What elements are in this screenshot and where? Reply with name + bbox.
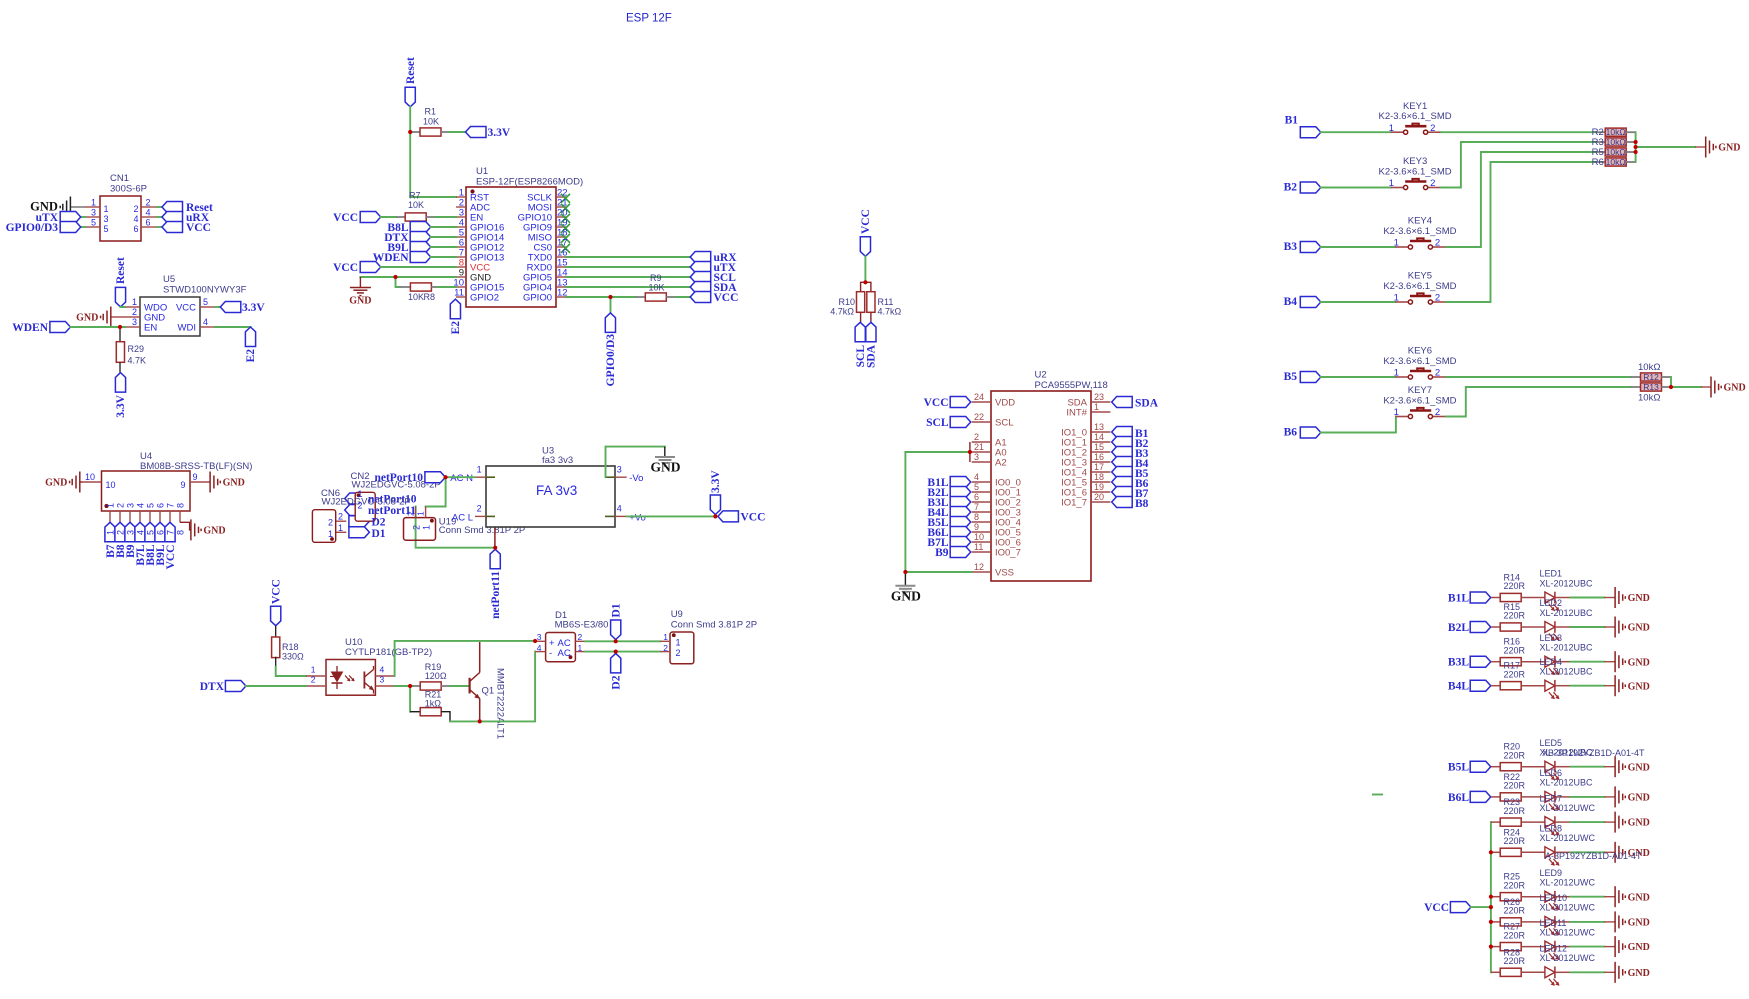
svg-text:GND: GND [1628, 681, 1650, 692]
svg-text:R17: R17 [1504, 661, 1521, 671]
svg-text:2: 2 [412, 525, 422, 530]
svg-text:B6: B6 [1284, 427, 1298, 439]
svg-text:3: 3 [974, 452, 979, 462]
svg-text:R26: R26 [1504, 897, 1521, 907]
svg-text:R20: R20 [1504, 742, 1521, 752]
svg-text:R9: R9 [650, 273, 662, 283]
svg-text:LED7: LED7 [1540, 793, 1563, 803]
svg-text:220R: 220R [1504, 750, 1526, 760]
svg-text:B8: B8 [1135, 498, 1149, 510]
svg-text:8: 8 [176, 503, 186, 508]
svg-text:Conn Smd 3.81P 2P: Conn Smd 3.81P 2P [671, 620, 757, 631]
svg-text:WJ2EDGVC-5.08-2P: WJ2EDGVC-5.08-2P [322, 496, 411, 507]
svg-text:XL-2012UBC: XL-2012UBC [1540, 643, 1594, 653]
svg-text:220R: 220R [1504, 806, 1526, 816]
svg-text:INT#: INT# [1066, 408, 1087, 419]
svg-text:R27: R27 [1504, 922, 1521, 932]
svg-text:U9: U9 [671, 609, 683, 620]
svg-text:2: 2 [1435, 368, 1440, 379]
svg-text:R6: R6 [1592, 157, 1604, 168]
svg-text:EN: EN [144, 323, 157, 334]
svg-text:3: 3 [91, 207, 96, 217]
svg-text:6: 6 [156, 503, 166, 508]
svg-text:MB6S-E3/80: MB6S-E3/80 [555, 620, 609, 631]
svg-text:24: 24 [974, 392, 984, 402]
svg-text:10kΩ: 10kΩ [1606, 147, 1626, 157]
svg-text:4: 4 [537, 643, 542, 653]
svg-text:LED12: LED12 [1540, 944, 1568, 954]
svg-text:D1: D1 [610, 603, 622, 617]
svg-text:2: 2 [146, 197, 151, 207]
svg-text:B3L: B3L [1448, 657, 1469, 669]
svg-text:CN1: CN1 [110, 173, 129, 184]
svg-text:6: 6 [156, 530, 166, 535]
svg-text:B2: B2 [1284, 182, 1298, 194]
svg-text:GND: GND [1718, 143, 1740, 154]
svg-text:5: 5 [104, 224, 109, 234]
svg-text:D1: D1 [372, 528, 386, 540]
svg-text:4.7kΩ: 4.7kΩ [830, 307, 854, 317]
svg-text:E2: E2 [245, 349, 257, 363]
svg-text:10kΩ: 10kΩ [1638, 362, 1660, 373]
svg-text:1: 1 [1389, 178, 1394, 189]
svg-text:1: 1 [338, 523, 343, 533]
svg-text:-: - [549, 648, 552, 659]
svg-text:VCC: VCC [741, 512, 766, 524]
svg-text:+: + [549, 638, 555, 649]
svg-text:GND: GND [1628, 968, 1650, 979]
svg-text:VCC: VCC [176, 303, 196, 314]
svg-text:DTX: DTX [200, 681, 225, 693]
svg-text:1: 1 [477, 464, 482, 474]
svg-text:2: 2 [1435, 238, 1440, 249]
svg-text:GND: GND [1628, 623, 1650, 634]
svg-text:11: 11 [974, 542, 983, 552]
svg-text:4: 4 [203, 317, 208, 327]
svg-text:9: 9 [180, 480, 185, 490]
svg-text:GPIO0/D3: GPIO0/D3 [6, 222, 59, 234]
svg-text:220R: 220R [1504, 781, 1526, 791]
svg-text:K2-3.6×6.1_SMD: K2-3.6×6.1_SMD [1383, 356, 1456, 367]
svg-text:3.3V: 3.3V [710, 470, 722, 493]
svg-text:XL-2012UBC: XL-2012UBC [1540, 667, 1594, 677]
svg-text:WDEN: WDEN [373, 252, 409, 264]
svg-text:4: 4 [380, 664, 385, 674]
svg-text:1: 1 [328, 529, 333, 539]
svg-text:B6L: B6L [1448, 792, 1469, 804]
svg-text:10: 10 [974, 532, 984, 542]
svg-text:1: 1 [1394, 368, 1399, 379]
svg-text:B2L: B2L [1448, 622, 1469, 634]
svg-text:B3: B3 [1284, 241, 1298, 253]
svg-text:2: 2 [1435, 407, 1440, 418]
svg-text:LED5: LED5 [1540, 738, 1563, 748]
svg-text:GND: GND [1628, 762, 1650, 773]
svg-text:CYTLP181(GB-TP2): CYTLP181(GB-TP2) [345, 647, 432, 658]
svg-text:14: 14 [1094, 432, 1104, 442]
svg-text:VCC: VCC [165, 545, 177, 570]
svg-text:XL-2012UBC: XL-2012UBC [1540, 608, 1594, 618]
svg-text:LED11: LED11 [1540, 918, 1567, 928]
svg-text:STWD100NYWY3F: STWD100NYWY3F [163, 285, 247, 296]
svg-text:XL-2012UWC: XL-2012UWC [1540, 953, 1596, 963]
svg-text:PCA9555PW,118: PCA9555PW,118 [1035, 380, 1108, 391]
svg-text:16: 16 [1094, 452, 1104, 462]
svg-text:netPort10: netPort10 [374, 472, 423, 484]
svg-text:5: 5 [91, 217, 96, 227]
svg-text:SCL: SCL [926, 417, 949, 429]
svg-text:LED1: LED1 [1540, 569, 1563, 579]
svg-text:ESP 12F: ESP 12F [626, 13, 672, 25]
svg-text:220R: 220R [1504, 581, 1526, 591]
svg-text:AC: AC [558, 648, 571, 659]
svg-text:B4: B4 [1284, 296, 1298, 308]
svg-text:1: 1 [422, 525, 432, 530]
svg-text:2: 2 [1430, 178, 1435, 189]
svg-text:2: 2 [477, 504, 482, 514]
svg-text:B9: B9 [935, 547, 949, 559]
svg-text:20: 20 [1094, 492, 1104, 502]
svg-text:GND: GND [76, 313, 98, 324]
svg-text:XL-2012UBC: XL-2012UBC [1540, 778, 1594, 788]
svg-text:9: 9 [193, 472, 198, 482]
svg-text:GND: GND [891, 588, 921, 603]
svg-text:R24: R24 [1504, 827, 1521, 837]
svg-text:2: 2 [1430, 123, 1435, 134]
svg-text:1: 1 [663, 632, 668, 642]
svg-text:R29: R29 [128, 344, 145, 354]
svg-text:7: 7 [974, 502, 979, 512]
svg-text:Reset: Reset [115, 257, 127, 284]
svg-text:1: 1 [132, 297, 137, 307]
svg-text:4.7kΩ: 4.7kΩ [878, 307, 902, 317]
svg-text:7: 7 [166, 503, 176, 508]
svg-text:R12: R12 [1643, 372, 1659, 382]
svg-text:VCC: VCC [270, 579, 282, 604]
svg-text:R22: R22 [1504, 772, 1521, 782]
svg-text:GPIO0: GPIO0 [523, 293, 552, 304]
svg-text:SDA: SDA [866, 344, 878, 368]
svg-text:3: 3 [380, 674, 385, 684]
svg-text:10K: 10K [408, 200, 424, 210]
svg-text:GND: GND [1628, 918, 1650, 929]
svg-text:R7: R7 [409, 191, 421, 201]
svg-text:R25: R25 [1504, 872, 1521, 882]
svg-text:R1: R1 [425, 107, 437, 117]
svg-text:12: 12 [974, 562, 984, 572]
svg-text:15: 15 [1094, 442, 1104, 452]
svg-text:4: 4 [146, 207, 151, 217]
svg-text:2: 2 [406, 511, 416, 516]
svg-text:1: 1 [91, 197, 96, 207]
svg-text:VDD: VDD [995, 398, 1015, 409]
svg-text:GPIO0/D3: GPIO0/D3 [605, 334, 617, 387]
svg-text:1: 1 [578, 643, 583, 653]
svg-text:GND: GND [1628, 793, 1650, 804]
svg-text:220R: 220R [1504, 906, 1526, 916]
svg-text:LED3: LED3 [1540, 633, 1563, 643]
svg-text:ESP-12F(ESP8266MOD): ESP-12F(ESP8266MOD) [476, 177, 583, 188]
svg-text:2: 2 [578, 632, 583, 642]
svg-text:330Ω: 330Ω [282, 651, 304, 661]
svg-text:AC N: AC N [450, 473, 473, 484]
svg-text:B1: B1 [1285, 115, 1299, 127]
svg-text:3: 3 [537, 632, 542, 642]
svg-text:K2-3.6×6.1_SMD: K2-3.6×6.1_SMD [1383, 281, 1456, 292]
svg-text:B1L: B1L [1448, 593, 1469, 605]
svg-text:R14: R14 [1504, 573, 1521, 583]
svg-text:4: 4 [133, 214, 138, 224]
svg-text:A-3P192YZB1D-A01-4T: A-3P192YZB1D-A01-4T [1545, 851, 1642, 861]
svg-text:U2: U2 [1035, 370, 1047, 381]
svg-text:2: 2 [132, 307, 137, 317]
svg-text:GND: GND [1628, 942, 1650, 953]
svg-text:LED2: LED2 [1540, 598, 1563, 608]
svg-text:8: 8 [176, 530, 186, 535]
svg-text:1: 1 [1394, 293, 1399, 304]
svg-text:2: 2 [328, 518, 333, 528]
svg-text:A2: A2 [995, 458, 1007, 469]
svg-text:22: 22 [974, 412, 984, 422]
svg-text:4: 4 [136, 503, 146, 508]
svg-text:23: 23 [1094, 392, 1104, 402]
svg-text:VCC: VCC [333, 212, 358, 224]
svg-text:R11: R11 [878, 297, 894, 307]
svg-text:2: 2 [663, 643, 668, 653]
svg-text:GND: GND [1628, 657, 1650, 668]
svg-text:LED9: LED9 [1540, 868, 1563, 878]
svg-text:XL-2012UWC: XL-2012UWC [1540, 878, 1596, 888]
svg-text:netPort11: netPort11 [490, 571, 502, 619]
svg-text:GND: GND [1628, 593, 1650, 604]
svg-text:220R: 220R [1504, 930, 1526, 940]
svg-text:10K: 10K [649, 283, 665, 293]
svg-text:18: 18 [1094, 472, 1104, 482]
svg-text:1: 1 [104, 204, 109, 214]
svg-text:220R: 220R [1504, 880, 1526, 890]
svg-text:2: 2 [116, 503, 126, 508]
svg-text:10K: 10K [423, 117, 439, 127]
svg-text:1: 1 [106, 530, 116, 535]
svg-text:SCL: SCL [995, 418, 1013, 429]
svg-text:3: 3 [104, 214, 109, 224]
svg-text:10kΩ: 10kΩ [1606, 157, 1626, 167]
svg-text:R8: R8 [424, 292, 436, 302]
svg-text:AC: AC [558, 638, 571, 649]
svg-text:2: 2 [338, 512, 343, 522]
svg-text:220R: 220R [1504, 611, 1526, 621]
svg-text:1: 1 [416, 511, 426, 516]
svg-text:4: 4 [974, 472, 979, 482]
svg-text:XL-2012UWC: XL-2012UWC [1540, 803, 1596, 813]
svg-text:VCC: VCC [860, 209, 872, 234]
svg-text:4: 4 [617, 504, 622, 514]
svg-text:4.7K: 4.7K [128, 356, 147, 366]
svg-text:GND: GND [349, 296, 371, 307]
svg-text:2: 2 [116, 530, 126, 535]
svg-text:B4L: B4L [1448, 681, 1469, 693]
svg-text:1: 1 [1389, 123, 1394, 134]
svg-text:D2: D2 [610, 675, 622, 689]
svg-text:GND: GND [1628, 818, 1650, 829]
svg-text:VCC: VCC [1424, 902, 1449, 914]
svg-text:LED8: LED8 [1540, 824, 1563, 834]
svg-text:220R: 220R [1504, 645, 1526, 655]
svg-text:1: 1 [311, 664, 316, 674]
svg-text:19: 19 [1094, 482, 1104, 492]
svg-text:VCC: VCC [924, 397, 949, 409]
svg-text:10K: 10K [408, 292, 424, 302]
svg-text:AC L: AC L [452, 512, 473, 523]
svg-text:2: 2 [676, 648, 681, 658]
svg-text:-Vo: -Vo [629, 473, 643, 484]
svg-text:GND: GND [1724, 383, 1746, 394]
svg-text:R13: R13 [1643, 382, 1659, 392]
svg-text:VSS: VSS [995, 568, 1014, 579]
svg-text:5: 5 [203, 297, 208, 307]
svg-text:120Ω: 120Ω [425, 671, 447, 681]
svg-text:17: 17 [1094, 462, 1104, 472]
svg-text:U1: U1 [476, 166, 488, 177]
svg-text:8: 8 [974, 512, 979, 522]
svg-text:VCC: VCC [714, 292, 739, 304]
svg-text:1: 1 [1394, 407, 1399, 418]
svg-text:K2-3.6×6.1_SMD: K2-3.6×6.1_SMD [1383, 226, 1456, 237]
svg-text:5: 5 [146, 530, 156, 535]
svg-text:WDEN: WDEN [12, 322, 48, 334]
svg-text:XL-2012UBC: XL-2012UBC [1540, 578, 1594, 588]
svg-text:IO1_7: IO1_7 [1061, 498, 1087, 509]
svg-text:1: 1 [1394, 238, 1399, 249]
svg-text:2: 2 [133, 204, 138, 214]
svg-text:3.3V: 3.3V [115, 394, 127, 417]
svg-text:3: 3 [126, 530, 136, 535]
svg-text:WDI: WDI [178, 323, 196, 334]
svg-text:VCC: VCC [333, 262, 358, 274]
svg-text:K2-3.6×6.1_SMD: K2-3.6×6.1_SMD [1379, 111, 1452, 122]
svg-text:fa3 3v3: fa3 3v3 [542, 455, 573, 466]
svg-text:10kΩ: 10kΩ [1638, 393, 1660, 404]
svg-text:3.3V: 3.3V [488, 127, 511, 139]
svg-text:11: 11 [454, 288, 464, 299]
svg-text:6: 6 [146, 217, 151, 227]
svg-text:Q1: Q1 [482, 686, 495, 697]
svg-text:LED4: LED4 [1540, 657, 1563, 667]
svg-text:BM08B-SRSS-TB(LF)(SN): BM08B-SRSS-TB(LF)(SN) [140, 461, 252, 472]
svg-text:XL-2012UWC: XL-2012UWC [1540, 833, 1596, 843]
svg-text:LED6: LED6 [1540, 768, 1563, 778]
svg-text:+Vo: +Vo [629, 512, 646, 523]
svg-text:MMBT2222ALT1: MMBT2222ALT1 [495, 668, 506, 739]
svg-text:GND: GND [1628, 892, 1650, 903]
svg-text:GND: GND [203, 526, 225, 537]
svg-text:4: 4 [136, 530, 146, 535]
svg-text:3: 3 [617, 464, 622, 474]
svg-text:10: 10 [106, 480, 116, 490]
svg-text:XL-2012UWC: XL-2012UWC [1540, 927, 1596, 937]
svg-text:10kΩ: 10kΩ [1606, 137, 1626, 147]
svg-text:9: 9 [974, 522, 979, 532]
svg-text:Reset: Reset [405, 57, 417, 84]
svg-text:B5L: B5L [1448, 762, 1469, 774]
svg-text:220R: 220R [1504, 836, 1526, 846]
svg-text:13: 13 [1094, 422, 1104, 432]
svg-text:K2-3.6×6.1_SMD: K2-3.6×6.1_SMD [1383, 395, 1456, 406]
svg-text:VCC: VCC [186, 222, 211, 234]
svg-text:B5: B5 [1284, 371, 1298, 383]
svg-text:10: 10 [85, 472, 95, 482]
svg-text:2: 2 [1435, 293, 1440, 304]
svg-text:2: 2 [974, 432, 979, 442]
svg-text:220R: 220R [1504, 669, 1526, 679]
svg-text:5: 5 [974, 482, 979, 492]
svg-text:3.3V: 3.3V [242, 302, 265, 314]
svg-text:U5: U5 [163, 274, 175, 285]
svg-text:1kΩ: 1kΩ [425, 699, 442, 709]
svg-text:GND: GND [45, 478, 67, 489]
svg-text:1: 1 [676, 638, 681, 648]
svg-text:10kΩ: 10kΩ [1606, 127, 1626, 137]
svg-text:6: 6 [133, 224, 138, 234]
svg-text:IO0_7: IO0_7 [995, 548, 1021, 559]
svg-text:LED10: LED10 [1540, 893, 1568, 903]
svg-text:XL-2012UWC: XL-2012UWC [1540, 903, 1596, 913]
svg-text:XB-3P192YZB1D-A01-4T: XB-3P192YZB1D-A01-4T [1542, 748, 1645, 758]
svg-text:3: 3 [126, 503, 136, 508]
svg-text:R16: R16 [1504, 637, 1521, 647]
svg-text:5: 5 [146, 503, 156, 508]
svg-text:R23: R23 [1504, 797, 1521, 807]
svg-text:7: 7 [166, 530, 176, 535]
svg-text:300S-6P: 300S-6P [110, 184, 147, 195]
svg-text:FA 3v3: FA 3v3 [536, 483, 577, 498]
svg-text:2: 2 [311, 674, 316, 684]
svg-text:3: 3 [132, 317, 137, 327]
svg-text:GPIO2: GPIO2 [470, 293, 499, 304]
svg-text:1: 1 [106, 503, 116, 508]
svg-text:SDA: SDA [1135, 398, 1159, 410]
svg-text:21: 21 [974, 442, 984, 452]
svg-text:R28: R28 [1504, 947, 1521, 957]
svg-text:R10: R10 [838, 297, 855, 307]
svg-text:GND: GND [223, 478, 245, 489]
svg-text:220R: 220R [1504, 956, 1526, 966]
svg-text:E2: E2 [450, 321, 462, 335]
svg-text:6: 6 [974, 492, 979, 502]
svg-text:K2-3.6×6.1_SMD: K2-3.6×6.1_SMD [1379, 166, 1452, 177]
svg-text:GND: GND [651, 460, 681, 475]
svg-text:1: 1 [1094, 402, 1099, 412]
svg-text:R15: R15 [1504, 602, 1521, 612]
